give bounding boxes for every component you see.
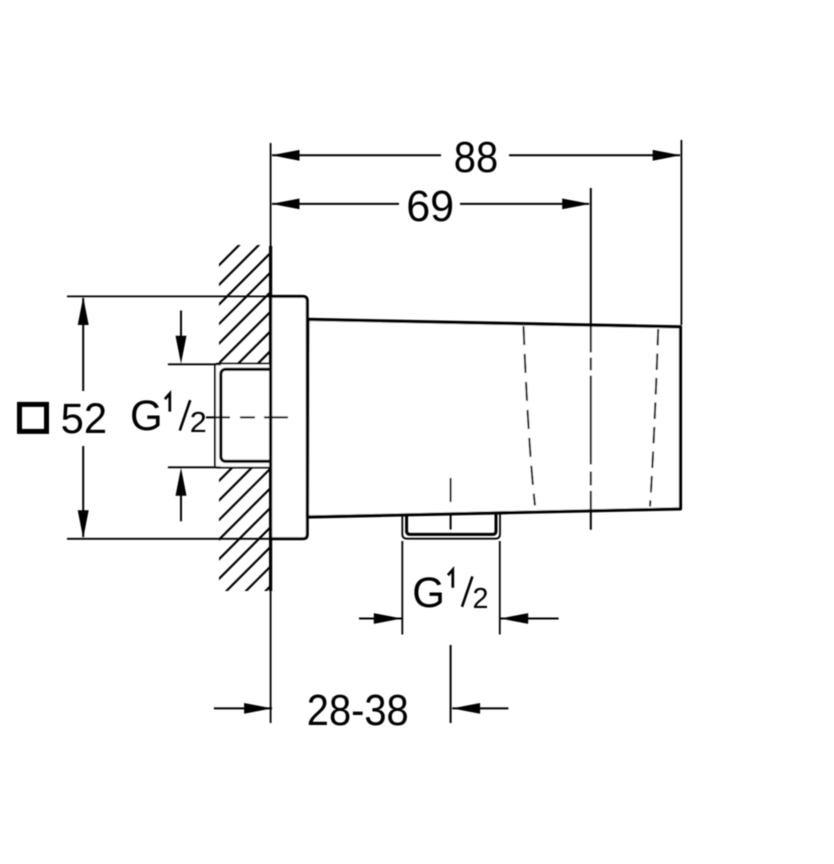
inlet port arrow bottom [180,494,182,522]
threaded inlet port G1/2 outer (thin) [215,364,272,468]
outlet dimension arrows [359,618,402,620]
svg-text:69: 69 [406,182,454,231]
dimension 52 extension lines [67,295,270,297]
dimension 88 right extension line [680,140,682,325]
bottom outlet centerline [450,478,452,723]
svg-text:2: 2 [473,583,489,615]
svg-text:2: 2 [190,407,207,439]
wall face line [270,143,272,723]
threaded inlet port G1/2 inner (thick) [221,369,273,461]
dimension 52 line [82,298,84,391]
inlet port arrow top [180,311,182,339]
body (tapered spout) [308,319,681,517]
outlet extension lines [401,541,403,635]
dimension 69 arrowheads [272,199,300,210]
body curvature dashed line right [650,329,658,507]
svg-text:G: G [130,392,163,440]
inlet port tick lines [168,363,221,365]
bottom outlet port outer (thin) [402,513,500,539]
wall hatching [218,214,271,639]
svg-text:G: G [412,569,445,617]
holder position centerline x=591 [590,188,592,530]
dimension 69 line [272,203,589,205]
svg-text:88: 88 [454,133,498,182]
dimension 28-38 arrows [214,707,272,709]
bottom outlet port inner (thick) [407,513,496,534]
svg-text:28-38: 28-38 [307,686,409,735]
dimension 52 arrowheads [78,297,89,325]
wall plate (escutcheon) [271,296,308,538]
body curvature dashed line left [524,326,536,506]
svg-text:52: 52 [61,396,108,443]
square symbol [20,404,47,431]
dimension 88 line [272,154,680,156]
dimension 88 arrowheads [272,150,300,161]
inlet port centerline [206,416,296,418]
